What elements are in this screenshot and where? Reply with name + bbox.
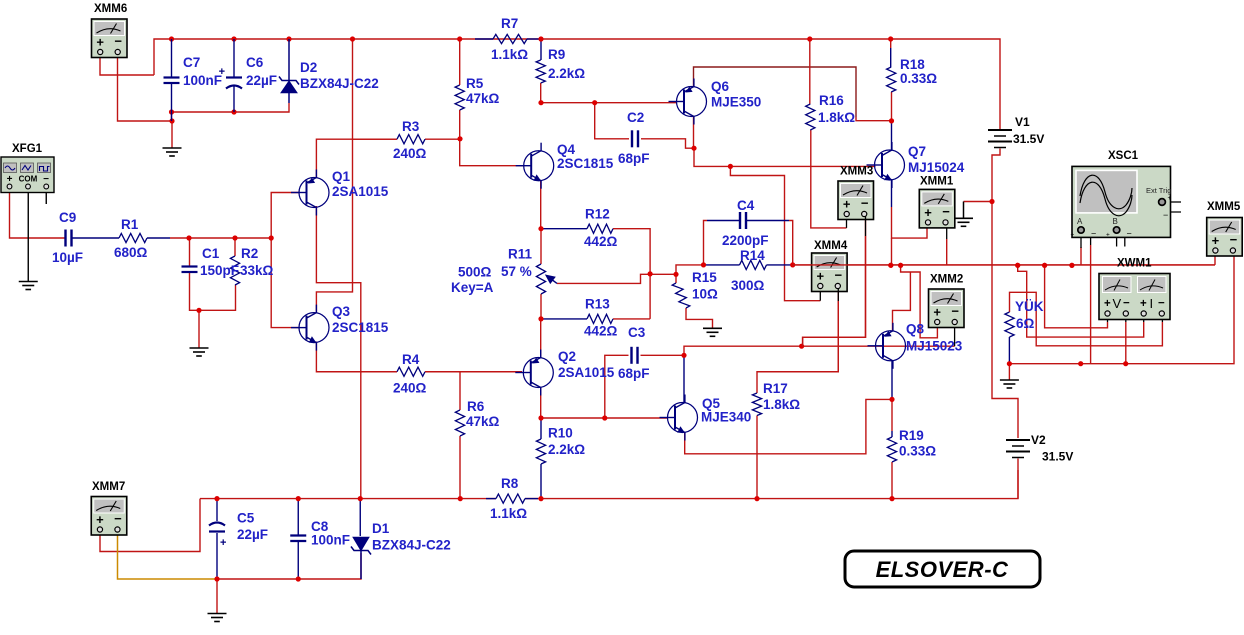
- svg-text:22µF: 22µF: [237, 527, 268, 542]
- svg-text:R17: R17: [763, 381, 788, 396]
- svg-text:R14: R14: [740, 248, 765, 263]
- wire Q8 collector riser: [893, 272, 911, 331]
- wire R9 top lead: [540, 39, 542, 60]
- function generator XFG1: [1, 157, 54, 193]
- svg-text:R13: R13: [585, 297, 610, 312]
- svg-text:C1: C1: [202, 246, 220, 261]
- wire Q8 emitter lead: [891, 361, 893, 400]
- svg-text:100nF: 100nF: [311, 533, 350, 548]
- svg-text:XFG1: XFG1: [12, 143, 43, 155]
- multimeter XMM3: [838, 181, 874, 220]
- capacitor C3: [632, 347, 638, 364]
- svg-text:MJE350: MJE350: [711, 95, 761, 110]
- wire R18 top lead: [890, 39, 892, 48]
- battery V1: [988, 130, 1012, 148]
- multimeter XMM4: [812, 253, 848, 292]
- capacitor C5 electrolytic: [209, 523, 225, 532]
- svg-text:+: +: [1168, 195, 1172, 202]
- svg-text:MJE340: MJE340: [701, 410, 751, 425]
- svg-text:Q4: Q4: [557, 142, 576, 157]
- svg-text:MJ15023: MJ15023: [906, 339, 963, 354]
- wire R15 bottom jog to ground: [686, 308, 713, 328]
- svg-text:0.33Ω: 0.33Ω: [900, 71, 937, 86]
- wire R13 line: [541, 318, 587, 320]
- wire R12 line from Q4 emitter node: [541, 228, 587, 230]
- svg-text:+: +: [1071, 232, 1075, 239]
- svg-text:XMM2: XMM2: [930, 274, 963, 286]
- svg-text:300Ω: 300Ω: [731, 278, 765, 293]
- wire XMM4 minus overlay: [837, 288, 839, 301]
- svg-text:Q6: Q6: [711, 79, 730, 94]
- svg-text:22µF: 22µF: [246, 73, 277, 88]
- wire R17 bottom lead to bottom rail: [756, 416, 758, 499]
- capacitor C1: [182, 267, 198, 273]
- svg-text:442Ω: 442Ω: [584, 234, 618, 249]
- wire ext trig stubs: [1166, 201, 1182, 203]
- svg-text:XSC1: XSC1: [1108, 150, 1139, 162]
- wire step from Q7 base line down to XMM4 plus branch: [730, 166, 820, 300]
- resistor R2: [230, 256, 239, 285]
- multimeter XMM5: [1207, 218, 1243, 257]
- svg-text:BZX84J-C22: BZX84J-C22: [300, 76, 379, 91]
- wire Q8 base line through transistor to XMM2 minus: [802, 345, 955, 347]
- wire R19 top lead: [891, 399, 893, 431]
- svg-text:−: −: [1091, 229, 1096, 239]
- wire XMM1 minus down to output rail: [946, 225, 948, 239]
- wire node to Q3 base: [271, 238, 299, 328]
- svg-text:−: −: [1158, 298, 1165, 310]
- wire C1 ground stem: [198, 310, 200, 348]
- ground below YUK: [1000, 380, 1019, 388]
- svg-text:R18: R18: [900, 57, 925, 72]
- title box ELSOVER-C: [845, 551, 1040, 587]
- svg-text:B: B: [1113, 217, 1118, 226]
- transistor Q4 2SC1815: [516, 143, 554, 189]
- svg-text:Q7: Q7: [908, 144, 926, 159]
- svg-text:−: −: [835, 268, 843, 283]
- wire C1 bottom to R2 bottom: [190, 272, 236, 310]
- wire C7 bottom rail: [172, 103, 290, 121]
- svg-text:2.2kΩ: 2.2kΩ: [548, 442, 585, 457]
- wire Q3 emitter to R4: [316, 342, 397, 372]
- wire V1 ground stem: [963, 202, 965, 219]
- wire R10 top lead: [540, 418, 542, 439]
- svg-text:+: +: [817, 269, 825, 284]
- wire XMM6 plus lead: [100, 54, 154, 75]
- svg-text:+: +: [96, 512, 104, 527]
- transistor Q2 2SA1015: [515, 350, 553, 396]
- wire YUK bottom lead: [1008, 337, 1010, 364]
- wire XFG1 minus stub: [45, 188, 47, 204]
- svg-text:I: I: [1150, 296, 1154, 311]
- wire C1 top lead: [189, 238, 191, 266]
- wire Q2 collector up to R13 node: [540, 319, 542, 357]
- wire R5 top lead: [459, 39, 461, 85]
- svg-text:Q1: Q1: [332, 169, 351, 184]
- wire R14 leads: [704, 264, 740, 266]
- svg-text:ELSOVER-C: ELSOVER-C: [876, 557, 1009, 582]
- svg-text:6Ω: 6Ω: [1016, 316, 1035, 331]
- resistor R16: [806, 104, 815, 130]
- wire R6 bottom lead: [459, 436, 461, 499]
- wire XMM7 minus orange lead: [118, 531, 218, 579]
- wire R5 bottom lead: [459, 110, 461, 139]
- wire R5 junction to Q4 base: [460, 139, 524, 166]
- svg-text:+: +: [1106, 232, 1110, 239]
- wire XMM3 minus down to Q8 base step: [803, 216, 866, 346]
- resistor R10: [536, 439, 545, 464]
- svg-text:D1: D1: [372, 521, 390, 536]
- junction dots: [169, 36, 174, 41]
- capacitor C6 electrolytic: [226, 78, 242, 89]
- wire Q4 collector node to Q6 base: [541, 102, 677, 104]
- svg-text:240Ω: 240Ω: [393, 381, 427, 396]
- wire XMM3 minus overlay: [865, 216, 867, 236]
- wire R14 left junction step to R12R13 node: [650, 265, 703, 274]
- transistor Q1 2SA1015: [291, 170, 329, 216]
- svg-text:+: +: [96, 35, 104, 50]
- capacitor C7: [164, 78, 180, 84]
- svg-text:R4: R4: [402, 352, 420, 367]
- wire R11 pot top lead: [540, 229, 542, 264]
- resistor R1: [119, 233, 147, 242]
- svg-text:R8: R8: [501, 476, 519, 491]
- svg-text:1.1kΩ: 1.1kΩ: [491, 47, 528, 62]
- multimeter XMM2: [929, 289, 965, 328]
- wire XWM1 V minus lead to load line: [1125, 316, 1127, 322]
- svg-text:−: −: [1123, 298, 1130, 310]
- ground below C1: [190, 348, 209, 356]
- resistor R14: [740, 260, 767, 269]
- resistor R15: [672, 283, 690, 308]
- wire C2 right lead to Q6 collector node: [641, 139, 694, 148]
- multimeter XMM7: [91, 497, 127, 536]
- resistor YUK load: [1005, 312, 1014, 337]
- wire scope B stubs: [1116, 233, 1118, 247]
- capacitor C9: [66, 230, 72, 247]
- wire Q5 collector lead: [683, 355, 685, 402]
- wire load line YUK to XMM5 minus: [1009, 253, 1234, 364]
- svg-text:47kΩ: 47kΩ: [466, 91, 500, 106]
- resistor R12: [587, 224, 613, 233]
- ground at V1 negative: [954, 218, 973, 226]
- svg-text:+: +: [7, 174, 13, 185]
- resistor R6: [455, 410, 464, 436]
- wire scope A minus down to load line: [1090, 245, 1092, 364]
- svg-text:−: −: [43, 174, 49, 185]
- wire Q6 collector to Q7 base line: [693, 117, 696, 149]
- svg-text:R19: R19: [899, 428, 924, 443]
- svg-text:V2: V2: [1031, 433, 1046, 447]
- svg-text:31.5V: 31.5V: [1013, 132, 1044, 146]
- svg-text:R10: R10: [548, 426, 573, 441]
- wire XWM1 I plus branch from output rail: [1018, 265, 1144, 337]
- svg-text:R12: R12: [585, 207, 610, 222]
- resistor R19: [887, 437, 896, 462]
- svg-text:MJ15024: MJ15024: [908, 160, 965, 175]
- ground at XMM6 rail: [163, 148, 182, 156]
- potentiometer R11: [536, 264, 545, 294]
- svg-text:YÜK: YÜK: [1015, 299, 1044, 314]
- svg-text:−: −: [861, 196, 869, 211]
- wire Q1 collector down to bottom rail: [316, 206, 360, 499]
- svg-text:−: −: [1163, 210, 1168, 220]
- svg-text:R6: R6: [467, 399, 485, 414]
- multimeter XMM1: [919, 189, 955, 228]
- svg-text:XMM3: XMM3: [840, 166, 873, 178]
- wire R8 leads: [486, 498, 496, 500]
- svg-text:10Ω: 10Ω: [692, 287, 718, 302]
- wire R16 bottom lead crossing to XMM3 plus: [811, 130, 847, 228]
- wire Q2 emitter down to R10 node: [540, 388, 542, 418]
- wire R6 top lead: [459, 372, 461, 410]
- resistor R5: [455, 85, 464, 110]
- svg-text:68pF: 68pF: [618, 151, 650, 166]
- ground below R15: [703, 328, 722, 336]
- capacitor C4: [740, 212, 746, 229]
- svg-text:R7: R7: [501, 16, 518, 31]
- capacitor C2: [632, 130, 638, 147]
- transistor Q6 MJE350: [669, 79, 707, 125]
- wire XMM6 ground stem: [171, 121, 173, 148]
- wire C8 top lead: [297, 499, 299, 536]
- svg-text:68pF: 68pF: [618, 366, 650, 381]
- ground below C5: [208, 614, 227, 622]
- wire C2 branch down from R9 node: [595, 103, 629, 139]
- wire XFG1 com ground lead: [27, 188, 29, 282]
- svg-text:2SC1815: 2SC1815: [332, 320, 389, 335]
- svg-text:BZX84J-C22: BZX84J-C22: [372, 538, 451, 553]
- svg-text:+: +: [933, 305, 941, 320]
- wire R17 top bracket to XMM4 minus: [757, 288, 838, 393]
- wire top V+ rail: [154, 39, 1000, 130]
- wire V2 negative to bottom rail: [1017, 459, 1019, 499]
- svg-text:240Ω: 240Ω: [393, 146, 427, 161]
- wire input line C9 to R1 to node: [72, 237, 120, 239]
- wire R12 right lead to vertical: [613, 229, 650, 319]
- svg-text:500Ω: 500Ω: [458, 265, 492, 280]
- svg-text:−: −: [951, 304, 959, 319]
- svg-text:−: −: [114, 34, 122, 49]
- wire C4 right bracket: [747, 220, 789, 222]
- svg-text:A: A: [1077, 217, 1083, 226]
- wire R11 wiper to R14 node: [557, 274, 650, 283]
- svg-text:C5: C5: [237, 511, 255, 526]
- svg-text:XMM5: XMM5: [1207, 201, 1241, 213]
- svg-text:−: −: [1127, 229, 1132, 239]
- wire long vertical from top rail to Q3 collector: [316, 39, 352, 312]
- capacitor C8: [290, 536, 306, 542]
- svg-text:Q3: Q3: [332, 304, 351, 319]
- wire R15 top lead: [675, 274, 677, 283]
- svg-text:47kΩ: 47kΩ: [466, 414, 500, 429]
- resistor R8: [496, 494, 525, 503]
- wire Q6 emitter up to driver rail: [694, 67, 857, 117]
- svg-text:C4: C4: [737, 198, 755, 213]
- svg-text:C2: C2: [627, 110, 644, 125]
- wire XMM7 plus lead: [100, 499, 200, 552]
- resistor R7: [493, 34, 527, 43]
- ground at XFG1 COM: [19, 282, 38, 290]
- svg-text:XMM1: XMM1: [920, 176, 954, 188]
- wire R3 right to R5 junction: [425, 138, 460, 140]
- wire R3 left lead: [353, 138, 398, 140]
- svg-text:31.5V: 31.5V: [1042, 450, 1073, 464]
- wire XFG1 plus to input node: [10, 188, 66, 238]
- svg-text:R1: R1: [121, 217, 139, 232]
- wire Q5 collector node up to Q8 base line: [684, 346, 802, 355]
- transistor Q7 MJ15024: [867, 142, 905, 188]
- wire Q1 emitter to R3 line: [316, 139, 397, 178]
- transistor Q8 MJ15023: [868, 323, 906, 369]
- svg-text:+: +: [1212, 233, 1220, 248]
- svg-text:XMM6: XMM6: [94, 3, 127, 15]
- svg-text:V: V: [1113, 296, 1122, 311]
- battery V2: [1006, 440, 1030, 458]
- svg-text:+: +: [1140, 298, 1147, 310]
- svg-text:0.33Ω: 0.33Ω: [899, 444, 936, 459]
- wire C5 ground stem: [216, 579, 218, 614]
- svg-text:C3: C3: [628, 325, 646, 340]
- wire node to Q1 base: [271, 193, 299, 239]
- svg-text:150pF: 150pF: [200, 263, 239, 278]
- svg-text:100nF: 100nF: [183, 73, 222, 88]
- zener diode D1: [351, 538, 371, 580]
- svg-text:R16: R16: [819, 93, 844, 108]
- svg-text:2SC1815: 2SC1815: [557, 156, 614, 171]
- wire C3 right lead to Q5 collector node: [641, 354, 684, 356]
- svg-text:R11: R11: [508, 247, 533, 262]
- svg-text:Key=A: Key=A: [451, 280, 494, 295]
- wire Q4 emitter down to R12 node: [540, 181, 542, 229]
- svg-text:2SA1015: 2SA1015: [558, 365, 615, 380]
- resistor R3: [397, 135, 425, 144]
- svg-text:442Ω: 442Ω: [584, 324, 618, 339]
- oscilloscope XSC1: [1071, 166, 1172, 238]
- svg-text:XMM7: XMM7: [92, 481, 125, 493]
- resistor R4: [397, 367, 425, 376]
- resistor R13: [587, 314, 613, 323]
- svg-text:+: +: [843, 197, 851, 212]
- svg-text:C7: C7: [183, 55, 200, 70]
- wattmeter XWM1: [1099, 274, 1170, 320]
- wire R10 node to C3 branch and Q5 base: [541, 417, 667, 419]
- svg-text:1.1kΩ: 1.1kΩ: [490, 506, 527, 521]
- svg-text:1.8kΩ: 1.8kΩ: [763, 397, 800, 412]
- zener diode D2: [279, 39, 299, 103]
- svg-text:2200pF: 2200pF: [722, 233, 769, 248]
- wire C5 bottom lead: [216, 533, 218, 579]
- svg-text:C9: C9: [59, 210, 76, 225]
- wire C5 C8 lower rail to D1: [217, 553, 361, 579]
- wire C3 branch up: [605, 355, 629, 418]
- wire XMM6 minus lead: [118, 54, 173, 121]
- svg-text:XWM1: XWM1: [1117, 258, 1152, 270]
- svg-text:−: −: [1230, 232, 1238, 247]
- wire R10 bottom lead: [540, 464, 542, 499]
- wire R7 leads on top rail: [475, 38, 493, 40]
- wire C4 left bracket from R14 junction: [704, 221, 708, 265]
- wire C5 top lead: [216, 499, 218, 521]
- svg-text:C6: C6: [246, 55, 264, 70]
- wire YUK top bracket: [1010, 292, 1163, 346]
- junction dots on output rail overlay: [888, 263, 893, 268]
- wire XMM2 minus lead: [954, 324, 956, 347]
- svg-text:2.2kΩ: 2.2kΩ: [548, 66, 585, 81]
- resistor R18: [887, 67, 896, 92]
- wire XWM1 V plus branch from output rail: [1045, 265, 1108, 328]
- svg-text:XMM4: XMM4: [814, 240, 848, 252]
- svg-text:+: +: [1104, 298, 1111, 310]
- svg-text:Q8: Q8: [906, 322, 925, 337]
- wire R19 bottom lead: [891, 462, 893, 499]
- wire C8 bottom lead: [297, 542, 299, 580]
- wire XMM2 plus step from output rail: [901, 265, 938, 338]
- wire R9 bottom lead to Q4 collector node: [540, 83, 542, 103]
- svg-text:−: −: [114, 511, 122, 526]
- svg-text:R3: R3: [402, 119, 420, 134]
- svg-text:1.8kΩ: 1.8kΩ: [818, 110, 855, 125]
- svg-text:57 %: 57 %: [501, 264, 532, 279]
- svg-text:Q2: Q2: [558, 349, 576, 364]
- svg-text:V1: V1: [1015, 115, 1030, 129]
- wire V1 ground tap: [964, 201, 993, 203]
- transistor Q5 MJE340: [660, 395, 698, 441]
- wire V1 negative to V2 positive: [992, 149, 1018, 439]
- wire scope A plus to output rail: [1080, 247, 1082, 265]
- wire scope A terminal stub: [1080, 233, 1082, 248]
- wire YUK ground stem: [1008, 364, 1010, 380]
- resistor R17: [752, 393, 761, 416]
- svg-text:−: −: [942, 204, 950, 219]
- svg-text:10µF: 10µF: [52, 250, 83, 265]
- svg-text:2SA1015: 2SA1015: [332, 184, 389, 199]
- wire R16 top lead: [809, 39, 811, 104]
- wire output rail right end to XMM5 plus: [1214, 253, 1216, 265]
- svg-text:Ext Trig: Ext Trig: [1146, 186, 1171, 195]
- wire R11 pot bottom lead: [540, 294, 542, 319]
- svg-text:COM: COM: [19, 175, 38, 184]
- svg-text:D2: D2: [300, 60, 317, 75]
- svg-text:R9: R9: [548, 47, 565, 62]
- multimeter XMM6: [92, 19, 128, 58]
- svg-text:33kΩ: 33kΩ: [240, 263, 274, 278]
- svg-text:+: +: [220, 537, 226, 549]
- resistor R9: [536, 60, 545, 83]
- wire output rail overlay crossing XMM4: [793, 264, 1215, 266]
- wire Q7 emitter to XMM1 plus and output rail: [891, 180, 893, 208]
- wire R4 right to R6 junction to Q2 base: [425, 371, 522, 373]
- wire D1 top lead: [359, 499, 361, 536]
- wire Q5 emitter to Q8 emitter node: [685, 399, 892, 453]
- svg-text:+: +: [924, 205, 932, 220]
- transistor Q3 2SC1815: [291, 305, 329, 351]
- wire R18 bottom lead: [891, 92, 893, 121]
- wire bottom negative rail: [200, 498, 496, 500]
- wire R2 top lead: [234, 238, 236, 256]
- svg-text:R5: R5: [466, 76, 484, 91]
- wire Q7 collector lead: [891, 121, 893, 151]
- svg-text:R2: R2: [241, 246, 258, 261]
- svg-text:680Ω: 680Ω: [114, 245, 148, 260]
- wire output rail: [793, 264, 1215, 266]
- svg-text:R15: R15: [692, 270, 717, 285]
